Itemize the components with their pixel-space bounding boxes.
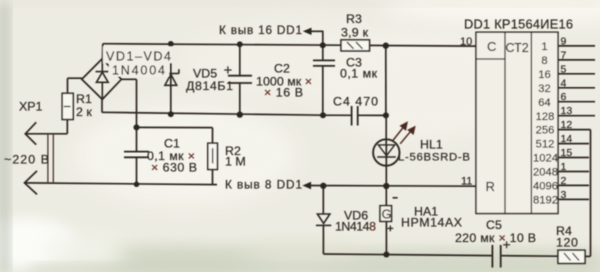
- svg-text:256: 256: [536, 125, 555, 137]
- svg-text:120: 120: [556, 235, 578, 249]
- svg-text:HL1: HL1: [420, 138, 443, 152]
- svg-text:C4 470: C4 470: [333, 95, 378, 109]
- svg-text:C: C: [487, 39, 496, 54]
- svg-text:6: 6: [561, 91, 567, 103]
- svg-text:HPM14AX: HPM14AX: [401, 216, 462, 230]
- svg-text:VD1–VD4: VD1–VD4: [106, 50, 171, 64]
- svg-text:С2: С2: [274, 62, 290, 76]
- svg-text:8192: 8192: [533, 195, 558, 207]
- svg-text:15: 15: [561, 147, 573, 159]
- svg-text:11: 11: [461, 175, 472, 187]
- svg-text:XP1: XP1: [19, 100, 43, 114]
- svg-text:1 М: 1 М: [225, 155, 246, 169]
- svg-text:R1: R1: [76, 92, 92, 106]
- svg-text:СТ2: СТ2: [506, 41, 529, 55]
- svg-text:8: 8: [541, 55, 547, 67]
- svg-text:1N4148: 1N4148: [335, 219, 376, 233]
- svg-text:1024: 1024: [533, 153, 558, 165]
- svg-text:64: 64: [538, 97, 550, 109]
- svg-text:512: 512: [536, 139, 555, 151]
- svg-text:13: 13: [561, 105, 573, 117]
- svg-text:9: 9: [561, 35, 567, 47]
- svg-text:4096: 4096: [533, 181, 558, 193]
- svg-text:1: 1: [541, 41, 547, 53]
- svg-text:L-56BSRD-B: L-56BSRD-B: [398, 152, 470, 164]
- svg-text:К выв 16 DD1: К выв 16 DD1: [219, 23, 302, 37]
- svg-text:R: R: [486, 179, 495, 194]
- svg-text:3: 3: [561, 189, 567, 201]
- svg-text:1: 1: [561, 161, 567, 173]
- svg-text:2 к: 2 к: [76, 105, 92, 119]
- svg-text:Д814Б1: Д814Б1: [186, 79, 233, 93]
- svg-text:3,9 к: 3,9 к: [341, 25, 369, 39]
- svg-text:~220 В: ~220 В: [4, 153, 49, 167]
- svg-text:5: 5: [561, 63, 567, 75]
- svg-text:128: 128: [536, 111, 555, 123]
- svg-text:R3: R3: [346, 12, 362, 26]
- svg-text:× 630 В: × 630 В: [151, 161, 197, 175]
- svg-text:10: 10: [460, 36, 472, 48]
- svg-text:16: 16: [538, 69, 550, 81]
- svg-text:0,1 мк: 0,1 мк: [340, 67, 378, 81]
- svg-text:12: 12: [561, 119, 573, 131]
- svg-text:DD1 КР1564ИЕ16: DD1 КР1564ИЕ16: [464, 17, 573, 32]
- svg-text:14: 14: [561, 133, 573, 145]
- svg-text:G: G: [382, 207, 392, 221]
- svg-text:2048: 2048: [533, 167, 558, 179]
- svg-text:32: 32: [538, 83, 550, 95]
- svg-text:220 мк × 10 В: 220 мк × 10 В: [455, 231, 536, 245]
- svg-text:1N4004: 1N4004: [112, 64, 165, 78]
- svg-text:К выв 8 DD1: К выв 8 DD1: [225, 178, 302, 192]
- svg-text:× 16 В: × 16 В: [264, 86, 303, 100]
- svg-text:C5: C5: [486, 218, 502, 232]
- svg-text:4: 4: [561, 77, 567, 89]
- svg-text:2: 2: [561, 175, 567, 187]
- svg-text:7: 7: [561, 49, 567, 61]
